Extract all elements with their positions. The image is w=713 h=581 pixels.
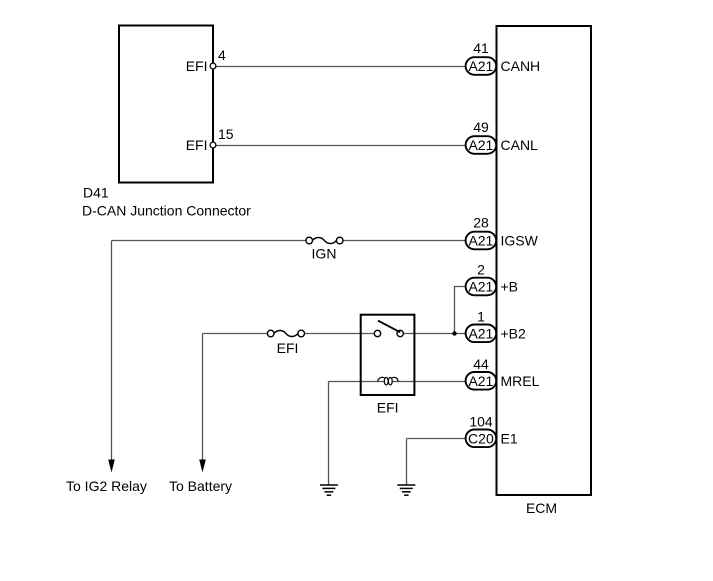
svg-text:MREL: MREL <box>501 373 540 389</box>
svg-text:To IG2 Relay: To IG2 Relay <box>66 478 147 494</box>
svg-text:EFI: EFI <box>277 340 299 356</box>
svg-text:EFI: EFI <box>186 137 208 153</box>
svg-text:104: 104 <box>469 413 493 429</box>
svg-text:4: 4 <box>218 47 226 63</box>
svg-text:+B2: +B2 <box>501 325 527 341</box>
svg-text:CANL: CANL <box>501 137 539 153</box>
svg-text:49: 49 <box>473 119 489 135</box>
svg-text:C20: C20 <box>468 430 494 446</box>
svg-text:A21: A21 <box>468 279 493 295</box>
svg-text:A21: A21 <box>468 373 493 389</box>
svg-text:A21: A21 <box>468 325 493 341</box>
svg-text:+B: +B <box>501 279 519 295</box>
svg-text:EFI: EFI <box>186 58 208 74</box>
svg-text:EFI: EFI <box>377 399 399 415</box>
svg-text:28: 28 <box>473 215 489 231</box>
svg-text:D41: D41 <box>83 185 109 201</box>
svg-text:IGN: IGN <box>312 246 337 262</box>
svg-text:A21: A21 <box>468 58 493 74</box>
svg-text:D-CAN Junction Connector: D-CAN Junction Connector <box>82 203 251 219</box>
svg-text:2: 2 <box>477 262 485 278</box>
svg-text:44: 44 <box>473 356 489 372</box>
svg-text:41: 41 <box>473 40 489 56</box>
svg-text:1: 1 <box>477 308 485 324</box>
svg-text:E1: E1 <box>501 430 518 446</box>
svg-text:ECM: ECM <box>526 500 557 516</box>
svg-text:A21: A21 <box>468 233 493 249</box>
svg-text:A21: A21 <box>468 137 493 153</box>
svg-text:15: 15 <box>218 126 234 142</box>
svg-text:IGSW: IGSW <box>501 233 539 249</box>
svg-text:To Battery: To Battery <box>169 478 232 494</box>
svg-text:CANH: CANH <box>501 58 541 74</box>
